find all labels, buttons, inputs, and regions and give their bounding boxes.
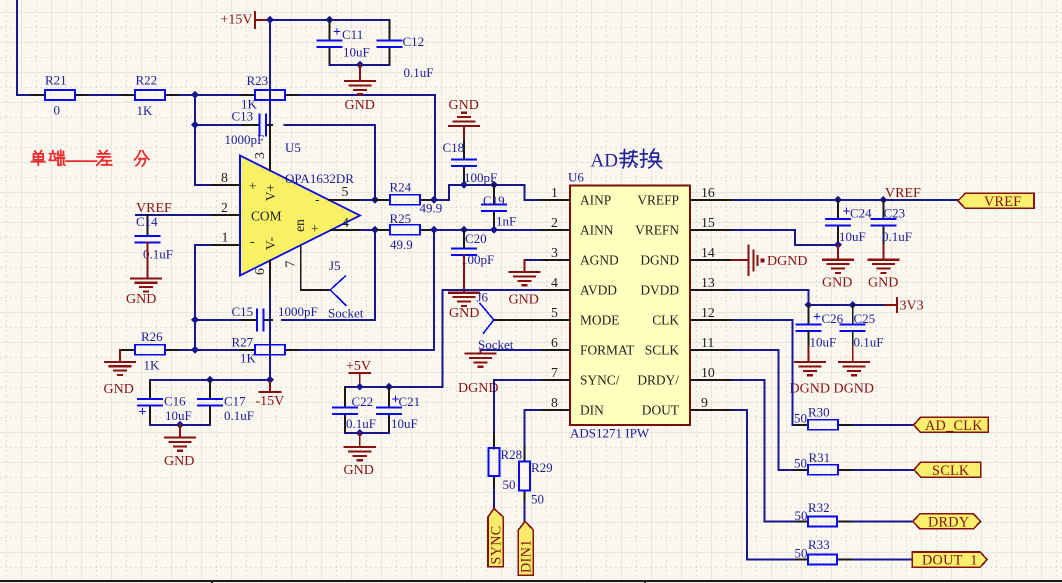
svg-text:16: 16 <box>701 185 715 200</box>
svg-text:6: 6 <box>252 268 267 275</box>
wire V+ supply down to op-amp pin3 <box>269 20 271 125</box>
wire R30 to AD_CLK port <box>853 424 914 426</box>
node -15V <box>266 376 274 384</box>
svg-text:V-: V- <box>263 237 278 250</box>
svg-text:R25: R25 <box>390 211 412 226</box>
capacitor C25 0.1uF <box>841 305 884 350</box>
wire +15V rail <box>268 19 390 21</box>
svg-text:11: 11 <box>701 335 714 350</box>
capacitor C21 10uF <box>377 387 420 433</box>
node R24 out / R23 feedback <box>430 196 438 204</box>
svg-text:GND: GND <box>822 276 852 291</box>
node C13 row <box>191 121 199 129</box>
svg-text:+: + <box>139 405 147 420</box>
svg-text:R26: R26 <box>141 329 163 344</box>
wire C11/C12 bottom rail <box>330 64 390 66</box>
connector J5 socket <box>328 258 364 321</box>
svg-text:50: 50 <box>795 508 808 523</box>
svg-text:1: 1 <box>222 230 229 245</box>
op-amp pin 5 output <box>329 184 360 200</box>
ground GND (C23) <box>868 245 898 291</box>
node C24 top <box>834 196 842 204</box>
svg-text:C16: C16 <box>164 393 186 408</box>
wire AVDD to +5V rail <box>345 290 540 387</box>
svg-text:1000pF: 1000pF <box>278 304 318 319</box>
svg-text:2: 2 <box>221 200 228 215</box>
node GND stem (C16/C17) <box>176 421 184 429</box>
wire SYNC/ to R28 <box>494 380 540 434</box>
svg-text:GND: GND <box>449 98 479 113</box>
svg-text:R28: R28 <box>501 447 523 462</box>
resistor R32 50 <box>795 500 854 526</box>
svg-text:0.1uF: 0.1uF <box>882 229 912 244</box>
svg-text:MODE: MODE <box>580 313 619 328</box>
svg-text:R22: R22 <box>136 73 158 88</box>
resistor R27 1K <box>232 335 301 366</box>
resistor R21 <box>31 73 90 118</box>
node C26 top <box>805 301 813 309</box>
wire feedback riser to R27 row <box>433 230 435 350</box>
op-amp pin 8 <box>210 170 240 185</box>
ground DGND (C25) <box>834 331 874 397</box>
wire op-amp V- down to -15V node <box>269 291 271 380</box>
svg-text:50: 50 <box>795 546 808 561</box>
capacitor C22 0.1uF <box>333 387 376 433</box>
op-amp pin 4 output <box>331 215 360 230</box>
svg-text:3: 3 <box>252 152 267 159</box>
node on +15V rail at x270 <box>266 16 274 24</box>
U6 pin 16 VREFP <box>637 185 733 208</box>
svg-text:R33: R33 <box>808 537 830 552</box>
svg-text:C15: C15 <box>232 304 254 319</box>
svg-text:GND: GND <box>449 306 479 321</box>
svg-text:R32: R32 <box>808 500 830 515</box>
svg-text:4: 4 <box>342 215 349 230</box>
wire R23 to feedback node <box>300 95 435 200</box>
svg-text:+: + <box>311 221 319 236</box>
node GND stem (C21/C22) <box>356 429 364 437</box>
svg-text:GND: GND <box>164 454 194 469</box>
U6 pin 11 SCLK <box>645 335 733 358</box>
op-amp pin 2 <box>210 200 240 215</box>
svg-text:-: - <box>315 192 319 207</box>
U6 pin 3 AGND <box>540 245 619 268</box>
svg-text:AGND: AGND <box>580 253 619 268</box>
ground GND (C21/C22) <box>344 433 375 478</box>
svg-text:10uF: 10uF <box>343 45 370 60</box>
resistor R29 50 (vertical) <box>519 447 553 507</box>
node C25 top <box>849 301 857 309</box>
wire pin1 down to R26/R27 row <box>195 245 210 350</box>
U6 pin 5 MODE <box>540 305 619 328</box>
connector J6 socket <box>477 290 541 353</box>
ground GND above C18 (inverted) <box>449 98 480 142</box>
wire DIN to R29 <box>525 410 541 447</box>
wire VREF to pin2 <box>136 214 210 216</box>
svg-text:C11: C11 <box>342 27 363 42</box>
svg-text:4: 4 <box>551 275 558 290</box>
svg-text:FORMAT: FORMAT <box>580 343 634 358</box>
node C23 top <box>880 196 888 204</box>
resistor R28 50 (vertical) <box>489 434 523 493</box>
svg-text:J5: J5 <box>329 258 341 273</box>
svg-text:1: 1 <box>551 185 558 200</box>
resistor R31 50 <box>794 450 853 475</box>
port DOUT 1 <box>912 552 987 569</box>
sheet border bottom <box>0 581 1062 583</box>
resistor R26 1K <box>120 329 180 373</box>
resistor R23 <box>240 73 300 112</box>
svg-text:10uF: 10uF <box>810 334 837 349</box>
svg-text:GND: GND <box>344 463 374 478</box>
svg-text:DGND: DGND <box>767 254 807 269</box>
wire SCLK to R31 <box>733 350 796 470</box>
svg-text:VREFP: VREFP <box>637 193 679 208</box>
U6 pin 9 DOUT <box>642 395 733 418</box>
svg-text:+15V: +15V <box>221 13 253 28</box>
node C20 top <box>460 226 468 234</box>
title AD conversion (blue) <box>591 149 662 171</box>
ground GND (C24) <box>822 245 853 291</box>
ground GND (C16/C17) <box>164 425 195 469</box>
capacitor C13 1000pF <box>195 109 272 148</box>
svg-text:DOUT 1: DOUT 1 <box>922 553 978 569</box>
node +5V stem <box>356 383 364 391</box>
svg-text:AINP: AINP <box>580 193 611 208</box>
svg-text:DRDY: DRDY <box>928 515 969 531</box>
svg-text:10uF: 10uF <box>165 408 192 423</box>
wire input from top edge <box>17 1 31 95</box>
svg-text:R21: R21 <box>45 73 67 88</box>
svg-text:J6: J6 <box>477 290 489 305</box>
ground GND (AGND) <box>509 260 540 308</box>
resistor R24 49.9 <box>375 180 442 216</box>
svg-text:AD_CLK: AD_CLK <box>925 418 983 434</box>
svg-text:0.1uF: 0.1uF <box>346 416 376 431</box>
wire R29 to DIN1 port <box>524 503 526 523</box>
svg-text:-15V: -15V <box>256 394 285 409</box>
wire DOUT to R33 <box>733 410 796 560</box>
U6 pin 7 SYNC/ <box>540 365 620 388</box>
svg-text:3: 3 <box>551 245 558 260</box>
svg-text:100pF: 100pF <box>464 170 497 185</box>
power 3V3 <box>885 298 924 314</box>
wire R27 to feedback riser <box>300 349 434 351</box>
svg-text:R24: R24 <box>390 180 412 195</box>
svg-text:14: 14 <box>701 245 715 260</box>
svg-text:R29: R29 <box>531 460 553 475</box>
svg-text:5: 5 <box>342 184 349 199</box>
svg-text:C19: C19 <box>483 193 505 208</box>
svg-text:ADS1271 IPW: ADS1271 IPW <box>570 426 650 441</box>
node C21 top <box>385 383 393 391</box>
svg-text:DVDD: DVDD <box>640 283 679 298</box>
svg-text:10uF: 10uF <box>391 416 418 431</box>
op-amp pin 6 (V-) <box>252 261 270 291</box>
svg-text:VREF: VREF <box>984 194 1021 210</box>
port DIN1 (vertical) <box>518 521 534 575</box>
wire R22 to R23 <box>180 94 240 96</box>
svg-text:49.9: 49.9 <box>420 200 443 215</box>
wire -15V node to C16/C17 rail <box>150 379 270 381</box>
svg-text:AD: AD <box>591 151 618 172</box>
svg-text:1000pF: 1000pF <box>225 132 265 147</box>
node GND stem <box>356 61 364 69</box>
svg-text:C14: C14 <box>136 214 158 229</box>
svg-text:C24: C24 <box>850 205 872 220</box>
svg-text:R23: R23 <box>247 73 269 88</box>
node R25 out / R27 feedback <box>430 226 438 234</box>
svg-text:0.1uF: 0.1uF <box>854 334 884 349</box>
wire pin4 to R25 <box>360 229 375 231</box>
svg-text:C18: C18 <box>443 140 465 155</box>
svg-text:1K: 1K <box>144 358 161 373</box>
capacitor C11 10uF <box>318 20 370 65</box>
U6 pin 1 AINP <box>540 185 611 208</box>
svg-text:5: 5 <box>551 305 558 320</box>
wire CLK to R30 <box>733 320 796 425</box>
svg-text:0.1uF: 0.1uF <box>404 65 434 80</box>
svg-text:GND: GND <box>868 276 898 291</box>
svg-text:DGND: DGND <box>790 382 830 397</box>
power DGND bar symbol (pin14) <box>732 246 807 275</box>
node C18 bottom <box>460 181 468 189</box>
U6 pin 4 AVDD <box>540 275 617 298</box>
svg-text:50: 50 <box>794 410 807 425</box>
svg-text:V+: V+ <box>263 184 278 201</box>
U6 pin 10 DRDY/ <box>637 365 733 388</box>
svg-text:R27: R27 <box>232 335 254 350</box>
svg-text:C25: C25 <box>854 311 876 326</box>
resistor R22 <box>120 73 180 119</box>
wire node195 to pin8 <box>195 184 210 186</box>
svg-text:SYNC/: SYNC/ <box>580 373 620 388</box>
port DRDY <box>913 514 981 531</box>
capacitor C19 1nF <box>482 185 516 230</box>
svg-text:GND: GND <box>126 292 156 307</box>
ground DGND (C26) <box>790 331 830 397</box>
ground DGND (FORMAT) <box>458 350 498 396</box>
svg-text:DGND: DGND <box>834 382 874 397</box>
wire R24 node up to AINP row <box>434 185 540 200</box>
resistor R33 50 <box>795 537 854 565</box>
svg-text:C17: C17 <box>224 393 246 408</box>
svg-text:10uF: 10uF <box>839 229 866 244</box>
node junction R22/R23 <box>191 91 199 99</box>
svg-text:1nF: 1nF <box>496 214 516 229</box>
svg-text:0.1uF: 0.1uF <box>224 408 254 423</box>
svg-text:13: 13 <box>701 275 715 290</box>
op-amp pin 7 (en) <box>283 246 331 290</box>
svg-text:2: 2 <box>551 215 558 230</box>
wire R25 node to AINN pin <box>434 229 540 231</box>
capacitor C23 0.1uF <box>871 200 912 245</box>
power -15V <box>256 380 285 409</box>
capacitor C15 1000pF <box>195 304 318 330</box>
svg-text:+: + <box>249 179 257 194</box>
U6 pin 13 DVDD <box>640 275 733 298</box>
capacitor C14 0.1uF <box>136 214 173 262</box>
node R26/R27/pin1 <box>191 346 199 354</box>
power +15V <box>221 12 269 28</box>
svg-text:6: 6 <box>551 335 558 350</box>
svg-text:R30: R30 <box>808 405 830 420</box>
svg-text:C12: C12 <box>403 34 425 49</box>
svg-text:en: en <box>292 219 307 232</box>
power +5V <box>346 359 371 387</box>
port SCLK <box>914 462 981 479</box>
wire FORMAT to DGND <box>481 349 541 351</box>
U6 pin 15 VREFN <box>635 215 733 238</box>
node C15 row <box>191 316 199 324</box>
capacitor C20 100pF <box>452 230 494 267</box>
wire pin4 node down to C15 row <box>282 230 375 320</box>
svg-text:VREFN: VREFN <box>635 223 679 238</box>
svg-text:SCLK: SCLK <box>645 343 680 358</box>
wire VREFN to C24 <box>733 230 838 245</box>
svg-text:SCLK: SCLK <box>932 463 970 479</box>
node C17 top <box>206 376 214 384</box>
ground GND (C14) <box>126 243 161 307</box>
svg-text:DOUT: DOUT <box>642 403 679 418</box>
IC U6 ADS1271 body <box>568 170 690 441</box>
op-amp pin 1 <box>210 230 240 245</box>
svg-text:8: 8 <box>221 170 228 185</box>
op-amp U5 body <box>240 156 360 276</box>
op-amp pin 3 (V+) <box>252 125 270 171</box>
svg-text:SYNC: SYNC <box>489 525 505 564</box>
svg-text:+: + <box>333 25 341 40</box>
svg-text:49.9: 49.9 <box>390 237 413 252</box>
svg-text:DIN1: DIN1 <box>519 539 535 573</box>
capacitor C26 10uF <box>796 305 843 350</box>
port AD_CLK <box>914 417 989 434</box>
wire R31 to SCLK port <box>853 469 914 471</box>
U6 pin 12 CLK <box>652 305 733 328</box>
svg-text:1K: 1K <box>137 103 154 118</box>
svg-text:+5V: +5V <box>346 359 371 374</box>
ground GND (C11/C12) <box>345 65 376 113</box>
wire pin5 to R24 <box>360 199 375 201</box>
wire node to R27 <box>195 349 240 351</box>
svg-text:C20: C20 <box>465 231 487 246</box>
svg-text:GND: GND <box>345 98 375 113</box>
svg-text:AINN: AINN <box>580 223 614 238</box>
wire R33 to DOUT_1 port <box>853 559 912 561</box>
svg-text:8: 8 <box>551 395 558 410</box>
wire R32 to DRDY port <box>853 520 913 522</box>
U6 pin 8 DIN <box>540 395 604 418</box>
label single-ended to differential (red) <box>32 150 149 166</box>
capacitor C17 0.1uF <box>198 380 254 425</box>
svg-text:GND: GND <box>509 293 539 308</box>
wire C22/C21 bottom rail <box>345 432 389 434</box>
svg-text:VREF: VREF <box>885 186 921 201</box>
svg-text:100pF: 100pF <box>461 252 494 267</box>
svg-text:9: 9 <box>701 395 708 410</box>
svg-text:U5: U5 <box>285 140 301 155</box>
wire R26 to node <box>180 349 195 351</box>
wire DRDY/ to R32 <box>733 380 796 522</box>
svg-text:15: 15 <box>701 215 715 230</box>
node C19 bottom <box>490 226 498 234</box>
svg-text:7: 7 <box>551 365 558 380</box>
svg-text:AVDD: AVDD <box>580 283 617 298</box>
svg-text:50: 50 <box>503 477 516 492</box>
svg-text:12: 12 <box>701 305 715 320</box>
svg-text:U6: U6 <box>568 170 584 185</box>
ground GND (C20) <box>449 255 479 321</box>
node pin4/C15 feedback <box>371 226 379 234</box>
node pin5/C13 feedback <box>371 196 379 204</box>
svg-text:R31: R31 <box>809 450 831 465</box>
wire VREFP to VREF port <box>733 199 958 201</box>
wire R21-R22 <box>90 94 120 96</box>
svg-text:0: 0 <box>54 103 61 118</box>
capacitor C12 0.1uF <box>378 20 434 80</box>
svg-text:7: 7 <box>283 260 298 267</box>
svg-text:DRDY/: DRDY/ <box>637 373 679 388</box>
svg-text:COM: COM <box>251 209 282 224</box>
port SYNC (vertical) <box>488 509 505 567</box>
svg-text:+: + <box>813 310 821 325</box>
wire C13 row from node 195 <box>194 95 196 185</box>
svg-text:DGND: DGND <box>640 253 679 268</box>
svg-text:C22: C22 <box>352 394 374 409</box>
capacitor C18 100pF <box>443 140 498 185</box>
svg-text:DIN: DIN <box>580 403 604 418</box>
U6 pin 14 DGND <box>640 245 732 268</box>
port VREF <box>958 193 1034 210</box>
capacitor C24 10uF <box>826 200 872 245</box>
svg-text:50: 50 <box>794 455 807 470</box>
U6 pin 6 FORMAT <box>540 335 634 358</box>
svg-text:C23: C23 <box>884 205 906 220</box>
wire C13 to feedback riser <box>285 125 376 200</box>
resistor R25 49.9 <box>375 211 434 252</box>
capacitor C16 10uF <box>138 380 192 425</box>
U6 pin 2 AINN <box>540 215 614 238</box>
svg-text:GND: GND <box>104 382 134 397</box>
svg-text:DGND: DGND <box>458 381 498 396</box>
svg-text:CLK: CLK <box>652 313 679 328</box>
svg-text:C13: C13 <box>232 109 254 124</box>
svg-text:Socket: Socket <box>328 306 364 321</box>
wire DVDD to 3V3 rail <box>733 290 885 305</box>
wire R28 to SYNC port <box>493 490 495 510</box>
resistor R30 50 <box>794 405 853 430</box>
node C11 top <box>326 16 334 24</box>
svg-text:10: 10 <box>701 365 715 380</box>
node C19 top <box>490 181 498 189</box>
node VREFN/C24 <box>834 241 842 249</box>
svg-text:50: 50 <box>531 492 544 507</box>
wire C16/C17 bottom rail <box>150 424 210 426</box>
wire AGND left <box>525 259 541 261</box>
svg-text:1K: 1K <box>240 351 257 366</box>
svg-text:3V3: 3V3 <box>900 299 924 314</box>
svg-text:C21: C21 <box>399 394 421 409</box>
svg-text:-: - <box>250 234 254 249</box>
ground GND (R26) <box>104 350 136 397</box>
